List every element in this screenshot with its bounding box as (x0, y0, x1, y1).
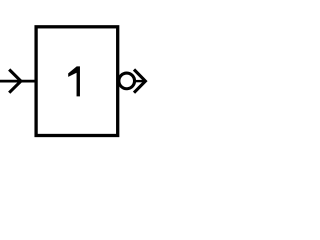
label "1" (gate function) (68, 66, 80, 96)
wire (input net, left) (0, 80, 36, 83)
input direction arrowhead (9, 70, 21, 93)
output direction arrowhead (134, 70, 145, 93)
gate body U1 (IEC rectangular outline) (36, 27, 118, 136)
inversion bubble at output (119, 73, 135, 89)
wire (output net, right) (133, 80, 145, 82)
